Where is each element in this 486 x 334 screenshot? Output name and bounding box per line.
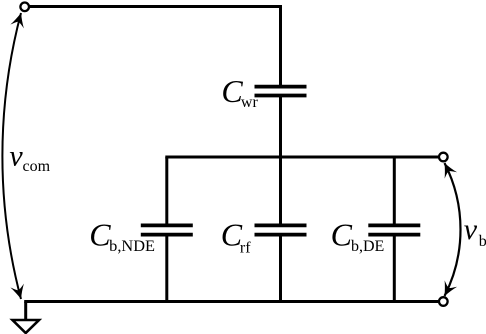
- svg-text:v: v: [464, 213, 478, 246]
- svg-text:C: C: [331, 217, 353, 253]
- svg-text:C: C: [89, 217, 111, 253]
- svg-text:b: b: [479, 233, 486, 250]
- svg-text:com: com: [23, 158, 51, 175]
- svg-text:v: v: [9, 139, 23, 172]
- svg-text:b,NDE: b,NDE: [109, 238, 155, 255]
- svg-text:b,DE: b,DE: [351, 238, 384, 255]
- svg-text:rf: rf: [240, 240, 251, 257]
- svg-text:wr: wr: [241, 94, 259, 111]
